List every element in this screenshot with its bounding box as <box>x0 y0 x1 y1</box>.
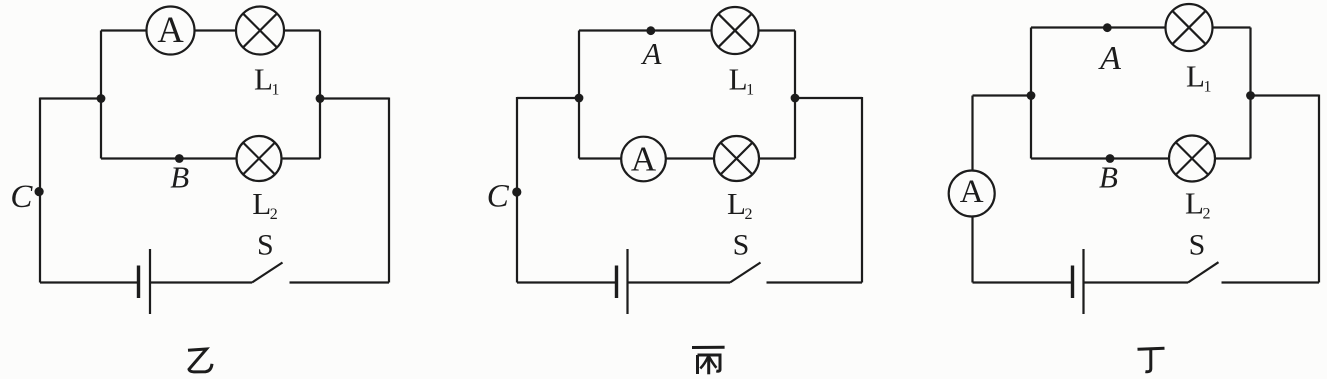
svg-text:A: A <box>631 140 657 179</box>
svg-text:L: L <box>1186 59 1205 94</box>
svg-text:L: L <box>254 62 273 97</box>
svg-text:A: A <box>1098 40 1121 77</box>
svg-text:L: L <box>729 62 748 97</box>
svg-text:S: S <box>257 228 274 261</box>
svg-text:A: A <box>641 36 663 71</box>
svg-text:1: 1 <box>1204 78 1212 95</box>
svg-text:1: 1 <box>746 81 754 98</box>
svg-text:1: 1 <box>272 81 280 98</box>
svg-text:C: C <box>10 179 33 215</box>
svg-text:L: L <box>252 186 271 221</box>
svg-text:2: 2 <box>1203 205 1211 222</box>
svg-text:L: L <box>1185 186 1204 221</box>
svg-text:C: C <box>487 179 510 215</box>
svg-text:2: 2 <box>745 206 753 223</box>
svg-text:S: S <box>1189 228 1206 261</box>
svg-text:A: A <box>960 174 984 210</box>
svg-text:B: B <box>170 160 189 195</box>
svg-text:B: B <box>1099 160 1118 195</box>
svg-text:2: 2 <box>270 206 278 223</box>
svg-text:L: L <box>727 186 746 221</box>
svg-text:S: S <box>733 228 750 261</box>
svg-text:A: A <box>157 9 184 50</box>
